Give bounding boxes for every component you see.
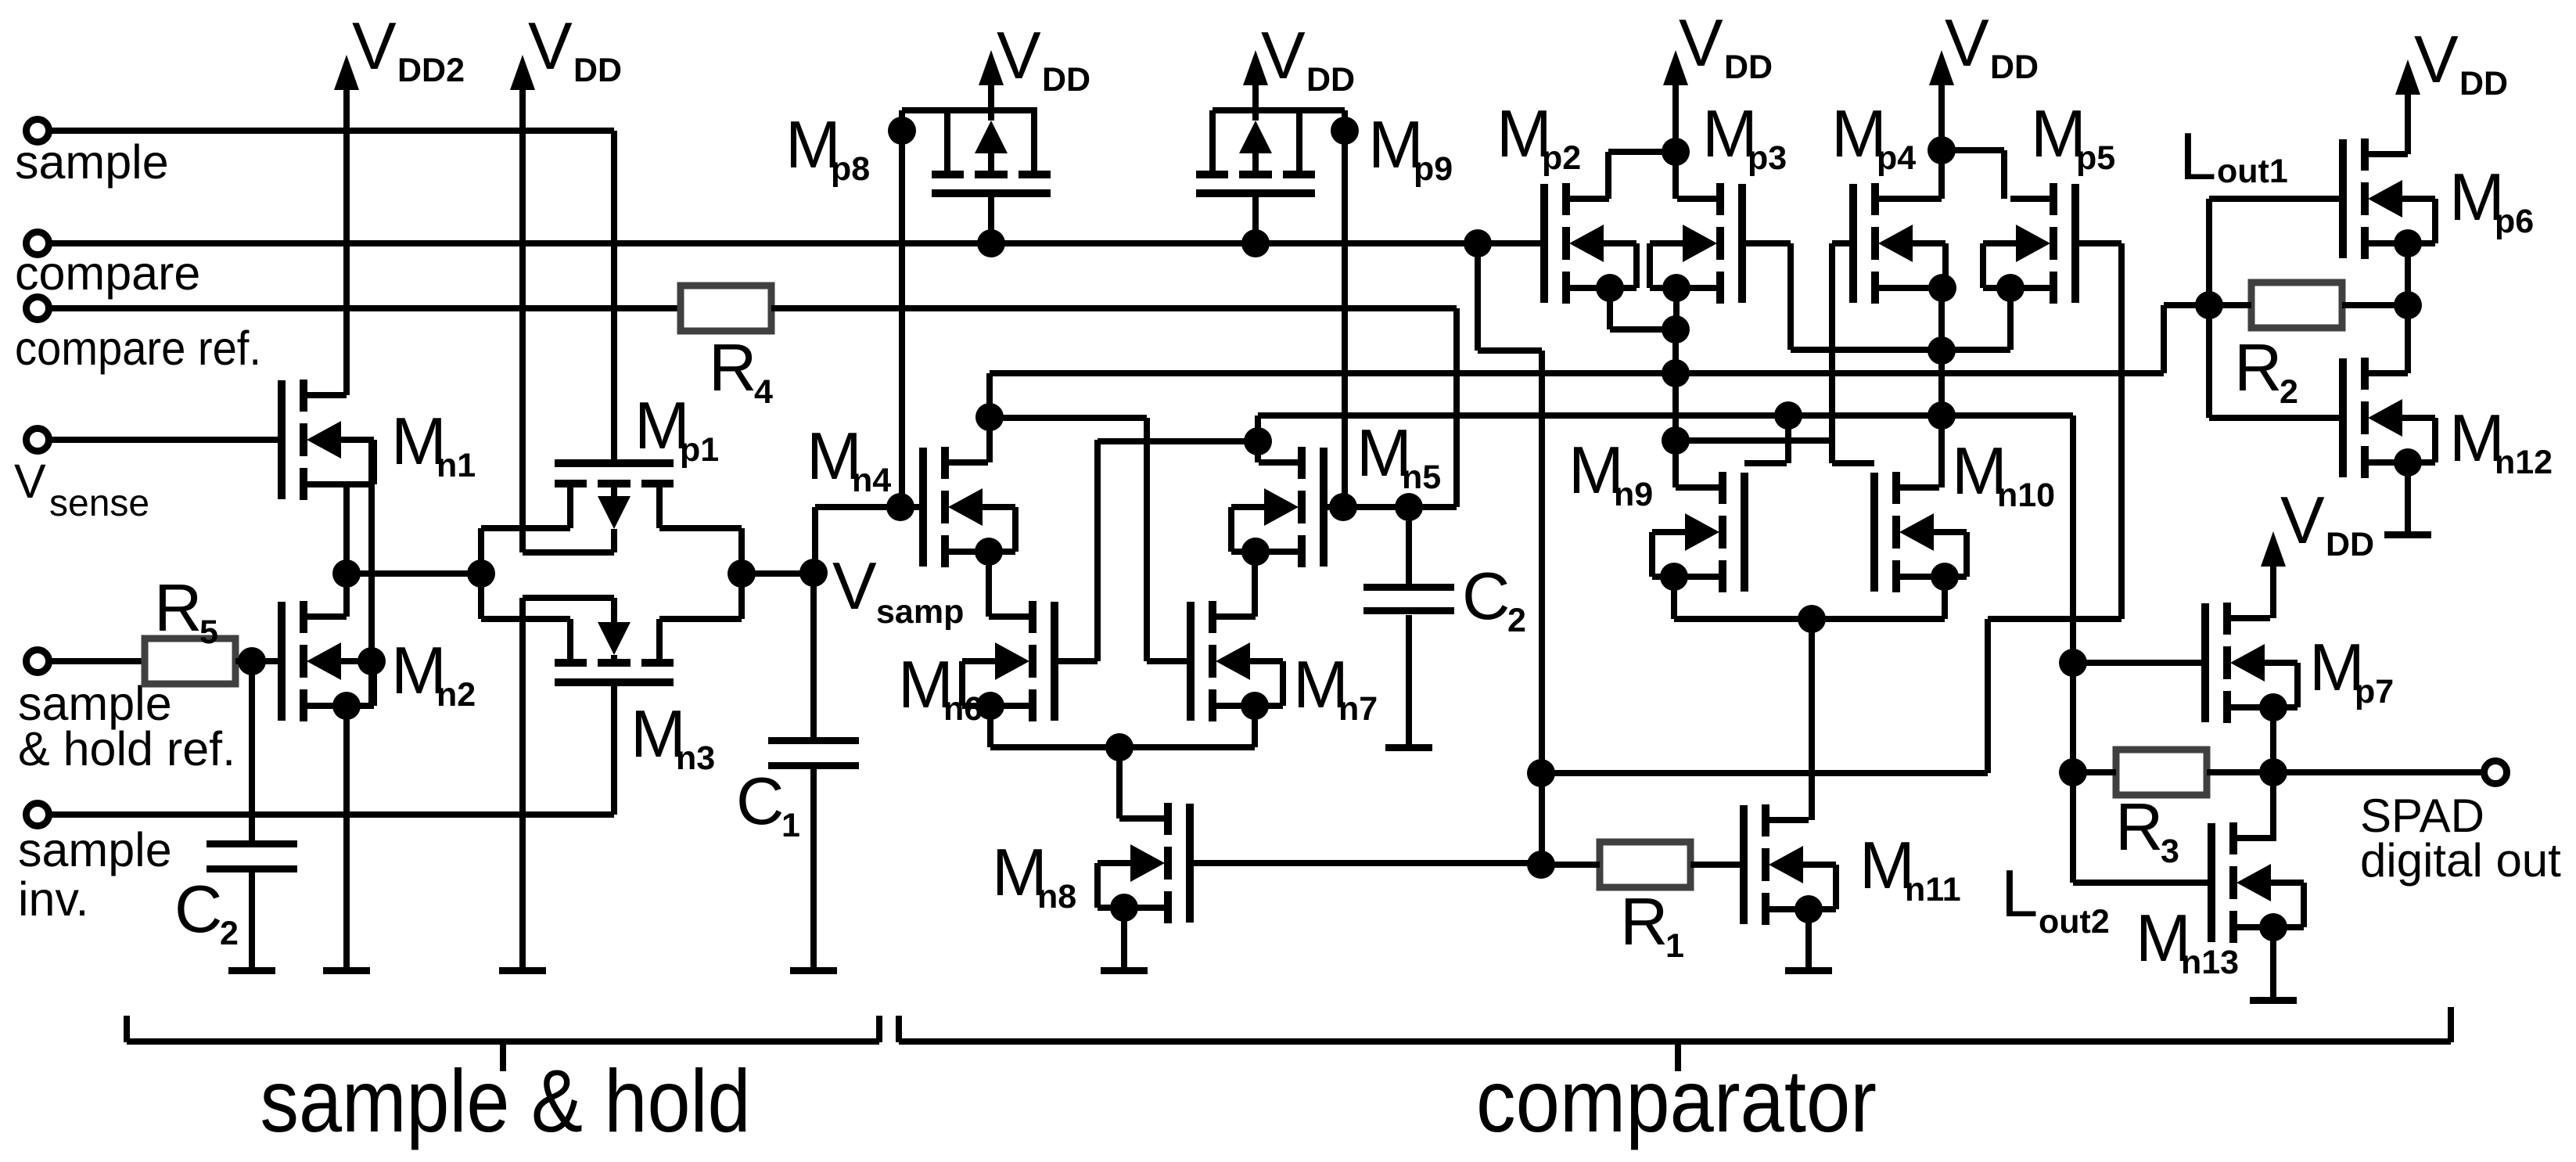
svg-text:comparator: comparator	[1476, 1052, 1877, 1150]
node dot: Mn5 source	[1241, 538, 1270, 566]
wire: Mp1 left stub riser	[567, 484, 573, 528]
wire: TG left lower to Mn3 source	[481, 616, 570, 622]
wire: VDD shaft Mp4/Mp5	[1938, 85, 1945, 150]
node dot: Mn5 drain	[1244, 427, 1272, 455]
node: compare ref. input terminal	[27, 297, 49, 320]
wire: Mn1 source down to node	[343, 484, 350, 574]
wire: compare branch down	[1475, 243, 1481, 351]
transistor Mp4	[1849, 184, 1857, 303]
wire: sample inv. net to Mn3 gate	[48, 811, 614, 818]
resistor R2	[2251, 282, 2342, 328]
wire: Mn3 bulk rail to ground line	[523, 595, 614, 601]
svg-text:V: V	[1679, 6, 1723, 81]
transistor Mn9	[1741, 473, 1748, 592]
wire: Mp5 drain riser	[2001, 150, 2007, 199]
svg-text:p9: p9	[1414, 150, 1453, 188]
node dot: Mp8 gate on compare net	[977, 229, 1005, 257]
wire: TG left node vertical	[478, 528, 484, 619]
node: sample input terminal	[27, 120, 49, 142]
node dot: R3 right node (SPAD out)	[2259, 758, 2287, 786]
transistor Mp5	[2071, 184, 2079, 303]
power VDD arrow (sample-hold)	[510, 55, 535, 90]
transistor Mn1	[278, 380, 286, 499]
wire: Mn4 source down	[986, 552, 992, 617]
wire: east wire to Mp5 gate path	[1541, 770, 1988, 776]
node dot: Mp7 gate node	[2059, 649, 2087, 677]
svg-text:V: V	[997, 19, 1041, 93]
transistor Mp3	[1738, 184, 1746, 303]
svg-text:p4: p4	[1877, 139, 1916, 177]
wire: Mp2 drain riser	[1605, 152, 1611, 199]
node dot: Mp4/Mp5 source on gate wire	[1928, 336, 1956, 365]
wire: R2 node to Mn12 drain	[2405, 305, 2411, 373]
wire: Mp6 drain riser	[2405, 94, 2411, 154]
wire: Mp5 drain to VDD dot	[1942, 147, 2004, 153]
wire: row B down to Lout2 column	[2070, 416, 2076, 883]
wire: Mp2 source down	[1607, 288, 1613, 329]
svg-text:inv.: inv.	[18, 872, 88, 926]
node dot: Mn9 gate on row B	[1774, 401, 1802, 430]
svg-text:p6: p6	[2495, 203, 2534, 240]
node dot: Mn10 source	[1931, 563, 1959, 591]
transistor Mp9	[1196, 189, 1315, 197]
svg-text:sample & hold: sample & hold	[260, 1052, 751, 1150]
ground under Mn11	[1785, 967, 1832, 974]
svg-text:compare ref.: compare ref.	[15, 322, 261, 375]
node dot: Mn1-source/Mn2-drain node	[332, 559, 361, 588]
transistor Mn2	[278, 602, 286, 721]
svg-text:V: V	[1261, 19, 1306, 93]
wire: R3 left lead	[2073, 769, 2116, 775]
wire: Mn2 drain stub	[304, 613, 347, 620]
transistor Mn11	[1740, 805, 1748, 924]
transistor Mp7	[2201, 603, 2209, 722]
power VDD arrow above Mp2/Mp3	[1663, 50, 1688, 85]
wire: compare ref. net to R4	[48, 305, 681, 311]
svg-text:2: 2	[1507, 602, 1526, 639]
wire: compare branch vertical to R1 node	[1539, 351, 1545, 865]
node dot: Mn9 source	[1660, 563, 1688, 591]
svg-text:5: 5	[199, 613, 218, 651]
svg-text:& hold ref.: & hold ref.	[18, 722, 235, 775]
node dot: Mp4 source	[1928, 274, 1956, 302]
wire: VDD vertical to Mp1 bulk rail	[519, 85, 526, 552]
ground under Mn2	[323, 967, 370, 974]
svg-text:digital out: digital out	[2360, 834, 2561, 887]
wire: Mn8 gate long wire to R1 node	[1190, 860, 1541, 866]
wire: Mp8 node down to Mn4 gate	[899, 110, 905, 507]
svg-text:n10: n10	[1997, 477, 2055, 514]
node dot: source column top	[1662, 315, 1690, 344]
svg-text:V: V	[832, 549, 877, 624]
wire: Mp3 source down	[1673, 288, 1680, 329]
wire: compare ref down to Mn5 gate	[1453, 308, 1460, 507]
wire: row A output net (Mn4 drain east)	[990, 370, 2164, 376]
wire: Mp5 source down	[2007, 288, 2014, 350]
svg-text:DD: DD	[1724, 49, 1773, 86]
wire: Mn11 source to ground	[1805, 909, 1812, 970]
wire: Mp3 gate to Mp4/Mp5 sources	[1791, 347, 2010, 353]
wire: sample&amp;hold ref. to R5	[48, 658, 145, 664]
node dot: VDD to Mp2/Mp3 drains	[1662, 138, 1690, 166]
power VDD arrow above Mp8	[979, 50, 1004, 85]
ground under Mn8	[1101, 967, 1148, 974]
transistor Mn4	[919, 448, 927, 567]
wire: Mp3 gate lead	[1742, 240, 1791, 246]
wire: Mn11 drain riser from tail rail	[1809, 619, 1815, 820]
wire: Mp7 drain riser to VDD	[2270, 565, 2276, 618]
svg-text:sense: sense	[49, 483, 149, 524]
transistor Mp6	[2339, 139, 2347, 258]
svg-text:V: V	[2414, 23, 2459, 97]
resistor R5	[145, 639, 235, 684]
wire: Mp5 gate path down	[1985, 619, 1991, 773]
wire: Mn9 gate lead	[1744, 460, 1787, 466]
wire: Mn6 gate vertical	[1094, 440, 1101, 661]
wire: Mn7 drain riser to Mn5 source	[1252, 552, 1258, 617]
wire: R3 right lead	[2207, 769, 2273, 775]
svg-text:R: R	[154, 571, 202, 646]
wire: Mp4 gate lead	[1832, 240, 1853, 246]
node dot: Mn8 source	[1110, 894, 1138, 922]
node dot: Mp3 source	[1662, 274, 1690, 302]
svg-text:1: 1	[781, 807, 800, 844]
transistor Mn8	[1186, 804, 1194, 923]
wire: compare ref east of R4	[771, 305, 1457, 311]
wire: gate node down to C2	[249, 661, 255, 841]
svg-text:out2: out2	[2039, 903, 2110, 941]
wire: Mn4 source to Mn6 drain	[989, 613, 1033, 620]
transistor Mn5	[1320, 448, 1328, 567]
svg-text:p2: p2	[1542, 139, 1581, 177]
node dot: column on row A	[1662, 359, 1690, 387]
wire: TG right upper from Mp1 drain	[659, 525, 742, 531]
wire: Mn7 source down	[1252, 706, 1258, 747]
node dot: R5/Mn2 gate/C2 junction	[238, 647, 266, 675]
wire: Mn5 drain riser	[1255, 416, 1261, 462]
svg-text:out1: out1	[2217, 153, 2288, 190]
wire: TG right lower from Mn3 drain	[659, 616, 742, 622]
brace: sample &amp; hold section	[124, 1016, 130, 1042]
node dot: R2 right node	[2394, 291, 2422, 319]
svg-text:V: V	[528, 9, 573, 84]
transistor Mp8	[932, 189, 1051, 197]
node dot: Mn1/Mn2 bulk tie	[357, 647, 386, 675]
node dot: Mn13 source	[2259, 913, 2287, 941]
wire: Mp4 drain riser	[1938, 150, 1945, 199]
node dot: Mn7 drain	[1241, 538, 1270, 566]
node dot: Mp9 node to Mn5 gate	[1329, 493, 1357, 521]
wire: Mp7 source to R3 right node	[2270, 707, 2276, 772]
transistor Mn6	[1051, 602, 1058, 721]
svg-text:DD: DD	[2459, 65, 2508, 103]
node dot: R1 left node	[1527, 851, 1555, 879]
wire: cross-couple wire to Mn10 gate	[1676, 437, 1832, 444]
wire: Mn4 drain riser	[986, 373, 993, 462]
wire: row A to Lout1 node	[2164, 302, 2209, 308]
svg-text:DD: DD	[573, 52, 622, 89]
svg-text:n3: n3	[676, 739, 715, 777]
node dot: Mp5 source	[1996, 274, 2025, 302]
transistor Mp2	[1540, 184, 1548, 303]
wire: H2 Mn6 gate to Mn5 drain	[1098, 438, 1258, 444]
wire: Mn9 gate vertical to row B	[1785, 416, 1791, 463]
node dot: C2 top on Mn5 gate wire	[1395, 493, 1423, 521]
transistor Mn10	[1870, 473, 1878, 592]
power VDD arrow above Mp9	[1243, 50, 1268, 85]
node dot: Mn6 source	[976, 692, 1004, 720]
wire: Mn1/Mn2 bulk line	[368, 440, 375, 706]
node dot: Mp8 drain/source node	[888, 117, 916, 145]
wire: Mn10 drain riser to row B	[1938, 416, 1945, 487]
ground under Mn12	[2384, 531, 2431, 538]
svg-text:DD: DD	[2326, 526, 2374, 563]
wire: TG left upper to Mp1 source	[481, 525, 570, 531]
node dot: transmission gate left node	[467, 559, 495, 588]
transistor Mn12	[2339, 358, 2347, 477]
wire: R1 left lead	[1541, 862, 1600, 868]
wire: Mn9 source down to tail rail	[1671, 577, 1677, 619]
wire: sample net horizontal	[48, 128, 614, 134]
resistor R3	[2116, 750, 2207, 795]
wire: Mp2 drain to VDD dot	[1608, 149, 1676, 155]
ground under Mn3 bulk	[499, 967, 546, 974]
wire: tail node down to Mn8 drain	[1116, 747, 1123, 818]
wire: Mn5 gate lead	[1324, 504, 1457, 510]
svg-text:p1: p1	[680, 431, 719, 469]
svg-text:n12: n12	[2495, 444, 2553, 481]
node: sample inv. terminal	[27, 804, 49, 826]
svg-text:4: 4	[754, 373, 773, 411]
node dot: Lout1 node (R2 left)	[2195, 291, 2223, 319]
wire: to SPAD digital out terminal	[2273, 769, 2484, 775]
node dot: Mn2 source	[332, 692, 361, 720]
svg-text:V: V	[2280, 484, 2325, 558]
node: sample &amp; hold ref. terminal	[27, 650, 49, 673]
wire: node to transmission gate	[347, 570, 481, 577]
svg-text:n5: n5	[1402, 459, 1441, 496]
wire: row A riser to R2 node	[2161, 305, 2167, 373]
wire: Mn3 right stub riser	[656, 619, 663, 663]
ground under C2 comparator	[1385, 744, 1432, 751]
wire: R5 to Mn2 gate	[235, 658, 278, 664]
node dot: Mn4 gate node	[886, 493, 914, 521]
wire: Vsamp node up to Mn4 gate wire	[812, 507, 818, 573]
transistor Mn13	[2208, 823, 2215, 942]
wire: Mp8 gate lead to compare	[988, 197, 994, 243]
svg-text:p7: p7	[2355, 673, 2394, 711]
svg-text:sample: sample	[15, 135, 169, 189]
node dot: Mn7 source	[1241, 692, 1269, 720]
wire: Mp4 gate / Mn10 gate vertical	[1829, 243, 1835, 463]
node dot: Mn12 source	[2394, 448, 2422, 477]
wire: compare net horizontal to Mp2 gate	[48, 240, 1541, 246]
node dot: VDD to Mp4/Mp5 drains	[1928, 136, 1956, 164]
node dot: Mp7 source	[2259, 693, 2287, 721]
wire: VDD2 vertical to Mn1 drain	[343, 85, 350, 395]
wire: Mp1 right stub riser	[656, 484, 663, 528]
wire: Mp5 gate path west	[1988, 616, 2122, 622]
svg-text:2: 2	[2280, 373, 2298, 411]
svg-text:C: C	[1462, 559, 1510, 634]
wire: H1 Mn4 drain to Mn7 gate	[990, 415, 1147, 421]
svg-text:n2: n2	[437, 676, 476, 714]
wire: R2 right lead	[2342, 302, 2408, 308]
wire: R2 left lead	[2209, 302, 2251, 308]
wire: Mn13 drain riser	[2270, 772, 2276, 838]
wire: Mn6 source down	[987, 706, 993, 747]
wire: C2 comparator to ground	[1406, 615, 1412, 747]
svg-text:sample: sample	[18, 823, 172, 876]
wire: C2 to ground	[249, 872, 255, 970]
ground under C2	[228, 967, 275, 974]
svg-text:p3: p3	[1748, 139, 1787, 177]
svg-text:n8: n8	[1037, 878, 1076, 916]
wire: Mp3 drain riser	[1672, 152, 1679, 199]
wire: Mp1 bulk to VDD rail	[523, 549, 614, 556]
wire: TG right node to Vsamp node	[742, 570, 814, 577]
wire: Mn4 gate wire	[815, 504, 923, 510]
svg-text:L: L	[2001, 857, 2038, 931]
wire: Mp4 drain stub ext	[1917, 196, 1942, 202]
node: Vsense input terminal	[27, 429, 49, 451]
svg-text:R: R	[1620, 885, 1668, 959]
power VDD arrow for Mp7	[2261, 531, 2286, 567]
node dot: column to Mn10 gate wire	[1662, 426, 1690, 455]
wire: Mp9 node down to Mn5 gate	[1342, 110, 1348, 507]
svg-text:1: 1	[1665, 927, 1684, 965]
svg-text:n13: n13	[2181, 944, 2239, 981]
svg-text:samp: samp	[876, 593, 964, 631]
transistor Mp1	[555, 459, 674, 467]
wire: Mn9 drain stub link	[1676, 484, 1723, 491]
svg-text:DD: DD	[1306, 61, 1355, 99]
wire: Mp5 gate lead	[2075, 240, 2122, 246]
svg-text:DD: DD	[1042, 61, 1090, 99]
node dot: Mn10 drain on row B	[1928, 401, 1956, 430]
svg-text:R: R	[2115, 790, 2163, 865]
wire: Mn12 source to ground	[2405, 462, 2411, 534]
node: compare input terminal	[27, 232, 49, 255]
wire: Mp6 gate lead	[2209, 196, 2343, 202]
node dot: Mp2 source	[1596, 274, 1624, 302]
svg-text:L: L	[2179, 120, 2216, 194]
power VDD arrow above Mp6	[2395, 59, 2420, 95]
wire: Mp3 gate vertical	[1787, 243, 1794, 350]
wire: Mp6 source to R2 node	[2405, 243, 2411, 305]
svg-text:DD: DD	[1990, 49, 2039, 86]
ground under C1	[790, 967, 837, 974]
power VDD arrow above Mp4/Mp5	[1929, 50, 1954, 85]
node dot: Vsamp node	[799, 559, 828, 587]
resistor R4	[681, 286, 771, 331]
wire: row B net (Mn5 drain east)	[1258, 412, 2073, 419]
wire: Mn10 gate lead	[1832, 460, 1874, 466]
node dot: Mn4 source	[975, 538, 1003, 566]
wire: Mp5 gate vertical	[2118, 243, 2125, 619]
wire: Lout1 vertical	[2206, 199, 2212, 418]
wire: Mn7 gate lead	[1147, 658, 1191, 664]
node dot: Mn4 drain	[975, 403, 1004, 431]
wire: Mn7 source to tail node	[1119, 744, 1255, 750]
power VDD2 arrow	[334, 55, 359, 90]
node dot: branch/east-wire junction	[1527, 759, 1555, 787]
svg-text:DD2: DD2	[397, 52, 465, 89]
transistor Mn3	[555, 678, 674, 686]
node dot: compare branch	[1464, 229, 1492, 257]
node dot: Mn6/Mn7 tail node	[1105, 733, 1134, 761]
wire: Mn2 source to ground	[343, 706, 350, 970]
node: SPAD digital out terminal	[2484, 761, 2507, 784]
svg-text:compare: compare	[15, 246, 200, 300]
wire: Mn6 gate lead	[1054, 658, 1098, 664]
svg-text:V: V	[352, 9, 397, 84]
wire: center column down to Mn9 drain	[1672, 329, 1679, 487]
svg-text:n11: n11	[1905, 871, 1961, 908]
resistor R1	[1600, 842, 1690, 887]
wire: Mn10 source down to tail rail	[1942, 577, 1948, 619]
wire: Mn2 drain up to node	[343, 574, 350, 617]
wire: Mn13 gate lead	[2073, 880, 2211, 886]
svg-text:2: 2	[220, 915, 239, 952]
svg-text:C: C	[736, 764, 784, 839]
capacitor C2 (comparator)	[1363, 584, 1454, 591]
node dot: tail rail to Mn11	[1798, 605, 1826, 633]
capacitor C2 (sample-hold)	[207, 840, 297, 847]
wire: C2 comparator top lead	[1406, 507, 1412, 584]
ground under Mn13	[2250, 997, 2297, 1004]
wire: Mp2 source to column	[1610, 326, 1676, 333]
wire: Mn3 left stub riser	[567, 619, 573, 663]
wire: Mn7 gate vertical	[1144, 418, 1150, 661]
wire: Mn13 source to ground	[2270, 927, 2276, 1000]
capacitor C1	[768, 737, 859, 744]
wire: Mn3 bulk ground vertical	[519, 598, 526, 970]
wire: Mp7 gate lead	[2073, 660, 2205, 666]
svg-text:3: 3	[2161, 833, 2179, 870]
node dot: R3 left node	[2059, 758, 2087, 786]
brace: comparator section	[896, 1016, 902, 1042]
svg-text:V: V	[1945, 6, 1989, 81]
wire: Mn6 source to tail node	[990, 744, 1119, 750]
node dot: Mn11 source	[1795, 895, 1823, 923]
wire: Mp9 gate lead to compare	[1252, 197, 1259, 243]
svg-text:C: C	[174, 872, 222, 947]
svg-text:n1: n1	[437, 447, 476, 484]
wire: Mn8 source to ground	[1121, 908, 1127, 970]
svg-text:n7: n7	[1338, 690, 1378, 728]
wire: R1 right lead to Mn11 gate	[1690, 862, 1744, 868]
svg-text:p8: p8	[831, 150, 870, 188]
svg-text:R: R	[709, 331, 756, 405]
node dot: Mp6 source	[2394, 229, 2422, 257]
svg-text:V: V	[14, 455, 46, 508]
wire: tail to Mn8 drain stub	[1119, 815, 1126, 822]
wire: comparator tail rail	[1674, 616, 1945, 622]
node dot: TG right node	[728, 559, 756, 588]
wire: compare branch jog	[1478, 347, 1542, 354]
node dot: Mp9 drain/source node	[1331, 117, 1359, 145]
wire: Mn1 drain to VDD2 line	[304, 392, 347, 398]
transistor Mn7	[1187, 602, 1195, 721]
svg-text:R: R	[2234, 331, 2282, 405]
wire: TG right node vertical	[738, 528, 745, 619]
wire: C1 to ground	[810, 769, 817, 970]
wire: Vsamp down to C1	[810, 573, 817, 738]
svg-text:n9: n9	[1614, 476, 1653, 513]
node dot: Mp9 gate on compare net	[1241, 229, 1270, 257]
svg-text:n4: n4	[852, 462, 891, 499]
